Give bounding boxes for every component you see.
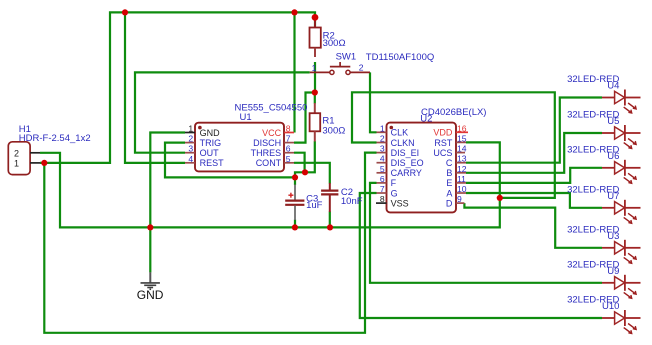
svg-text:TRIG: TRIG [200, 138, 222, 148]
wire U1 CONT pin5 to C2 top [294, 163, 330, 184]
wire C3 bottom to ground rail [294, 220, 296, 228]
U1 pin names [200, 128, 225, 168]
svg-text:14: 14 [457, 144, 467, 154]
node TRIG/C3 [292, 174, 298, 180]
U1 pin numbers [188, 124, 193, 164]
svg-text:3: 3 [380, 144, 385, 154]
U2 pin names [391, 128, 424, 209]
wire junction down to R1 top [314, 93, 316, 104]
wire GND branch to U2 CLKN pin2 [352, 92, 555, 198]
wire R2 lower lead through SW1 node to R1 junction [314, 62, 316, 93]
svg-text:3: 3 [188, 144, 193, 154]
wire junction to U1 DISCH pin7 [294, 93, 315, 143]
U1 pin stubs [185, 133, 294, 163]
svg-text:VCC: VCC [262, 128, 282, 138]
svg-text:DISCH: DISCH [253, 138, 281, 148]
wire R1 bottom to THRES node [305, 141, 315, 172]
svg-text:THRES: THRES [251, 148, 282, 158]
svg-text:1: 1 [188, 124, 193, 134]
svg-text:GND: GND [200, 128, 221, 138]
node rail-VCC8 [291, 9, 297, 15]
svg-text:HDR-F-2.54_1x2: HDR-F-2.54_1x2 [19, 133, 91, 144]
LED U3 32LED-RED [567, 224, 640, 263]
LED U9 32LED-RED [567, 259, 640, 298]
node RST/CLKN/GND [497, 195, 503, 201]
wire U1 GND pin1 down to ground symbol [150, 133, 185, 273]
wire R2 bottom to SW1 pin1 junction and down [314, 17, 316, 27]
svg-text:2: 2 [188, 134, 193, 144]
svg-text:1: 1 [312, 63, 317, 73]
svg-text:A: A [446, 188, 452, 198]
wire node to C3 node [295, 172, 305, 177]
svg-text:2: 2 [380, 134, 385, 144]
svg-text:CARRY: CARRY [391, 168, 422, 178]
svg-text:UCS: UCS [433, 148, 452, 158]
wire GND rail from H1 pin2 to U2 RST pin15 [40, 142, 500, 227]
resistor R2 [310, 19, 346, 57]
U2 pin numbers [380, 123, 385, 204]
IC U2 CD4026 [387, 107, 487, 212]
LED U5 32LED-RED [567, 110, 640, 149]
wire C3 node down to C3 top [294, 177, 296, 185]
wire VCC top rail from H1 pin1 riser to R2 [40, 12, 315, 163]
U2 pin stubs [376, 132, 468, 203]
wire C2 bottom to ground rail [329, 212, 331, 228]
svg-text:9: 9 [457, 194, 462, 204]
svg-text:2: 2 [14, 148, 19, 158]
svg-text:8: 8 [380, 194, 385, 204]
node C2-rail [327, 224, 333, 230]
wire U2 A pin10 to LED U7 [466, 193, 602, 208]
op-amp-style IC body U1 NE555 [195, 103, 307, 172]
wire U2 E pin11 to LED U6 [466, 168, 602, 183]
svg-text:E: E [446, 178, 452, 188]
svg-text:10: 10 [457, 184, 467, 194]
wire U2 D pin9 to LED U3 [464, 203, 602, 248]
svg-text:4: 4 [188, 154, 193, 164]
wire VCC drop to U1 VCC pin8 [293, 12, 295, 132]
node gnd-sym rail [147, 224, 153, 230]
LED U10 32LED-RED [567, 295, 640, 334]
svg-text:D: D [446, 198, 453, 208]
svg-text:5: 5 [380, 164, 385, 174]
svg-text:TD1150AF100Q: TD1150AF100Q [366, 52, 434, 63]
svg-text:U10: U10 [602, 301, 619, 312]
svg-text:U4: U4 [607, 81, 619, 92]
svg-text:C: C [446, 158, 453, 168]
svg-text:U7: U7 [607, 191, 619, 202]
svg-text:VSS: VSS [391, 198, 409, 208]
ground [137, 272, 164, 302]
wire SW1 pin2 down to U2 CLK pin1 [370, 72, 377, 132]
svg-text:G: G [391, 188, 398, 198]
wire U2 F pin6 to LED U9 [370, 183, 602, 283]
svg-text:5: 5 [286, 154, 291, 164]
svg-text:U1: U1 [240, 112, 252, 123]
wire U2 B pin12 to LED U5 [466, 133, 602, 173]
svg-text:DIS_EI: DIS_EI [391, 148, 420, 158]
wire U1 THRES pin6 to node [294, 153, 305, 173]
svg-text:300Ω: 300Ω [322, 125, 345, 136]
svg-text:CLK: CLK [391, 128, 409, 138]
svg-text:CLKN: CLKN [391, 138, 415, 148]
wire U1 TRIG pin2 to C3 node [165, 143, 295, 178]
node THRES/R1 [302, 169, 308, 175]
wire U2 G pin7 to LED U10 [360, 193, 602, 318]
svg-text:REST: REST [200, 158, 225, 168]
svg-text:B: B [446, 168, 452, 178]
svg-text:10nF: 10nF [341, 196, 363, 207]
svg-text:U5: U5 [607, 116, 619, 127]
node H1-1 [41, 160, 47, 166]
svg-text:6: 6 [286, 144, 291, 154]
node rail-REST [122, 9, 128, 15]
svg-text:16: 16 [457, 123, 467, 133]
svg-text:13: 13 [457, 154, 467, 164]
svg-text:RST: RST [434, 138, 453, 148]
svg-text:CONT: CONT [256, 158, 282, 168]
LED U6 32LED-RED [567, 144, 640, 183]
svg-text:2: 2 [359, 63, 364, 73]
svg-text:8: 8 [286, 124, 291, 134]
svg-text:15: 15 [457, 134, 467, 144]
svg-text:SW1: SW1 [336, 52, 357, 63]
svg-text:F: F [391, 178, 397, 188]
svg-text:1uF: 1uF [306, 200, 323, 211]
wire U2 C pin13 to LED U4 [466, 98, 602, 163]
svg-text:11: 11 [457, 174, 466, 184]
node SW1/R1/DISCH [312, 89, 318, 95]
svg-text:DIS_EO: DIS_EO [391, 158, 424, 168]
svg-text:4: 4 [380, 154, 385, 164]
wire VCC loop H1-1 down, bottom run, up to U2 DIS_EI pin3 [44, 153, 376, 333]
svg-text:12: 12 [457, 164, 467, 174]
switch SW1 [310, 52, 435, 75]
node C3-rail [292, 224, 298, 230]
node rail-R2 [312, 14, 319, 21]
svg-text:7: 7 [286, 134, 291, 144]
wire SW1 pin1 left run and U1 OUT pin3 [135, 72, 310, 152]
svg-text:7: 7 [380, 184, 385, 194]
svg-text:6: 6 [380, 174, 385, 184]
svg-text:1: 1 [380, 123, 385, 133]
svg-text:U9: U9 [607, 266, 619, 277]
svg-text:300Ω: 300Ω [323, 38, 346, 49]
LED U4 32LED-RED [567, 74, 640, 113]
svg-text:OUT: OUT [200, 148, 220, 158]
svg-text:1: 1 [14, 158, 19, 168]
svg-text:U3: U3 [607, 231, 619, 242]
svg-text:U2: U2 [420, 114, 432, 125]
resistor R1 [310, 103, 346, 142]
capacitor C2 [321, 183, 363, 212]
wire VCC drop to U1 REST pin4 [125, 12, 185, 163]
header H1 [8, 124, 90, 174]
svg-text:GND: GND [137, 288, 164, 302]
capacitor C3 polarized [285, 185, 322, 221]
svg-text:VDD: VDD [433, 128, 453, 138]
svg-text:U6: U6 [607, 151, 619, 162]
LED U7 32LED-RED [567, 184, 640, 223]
